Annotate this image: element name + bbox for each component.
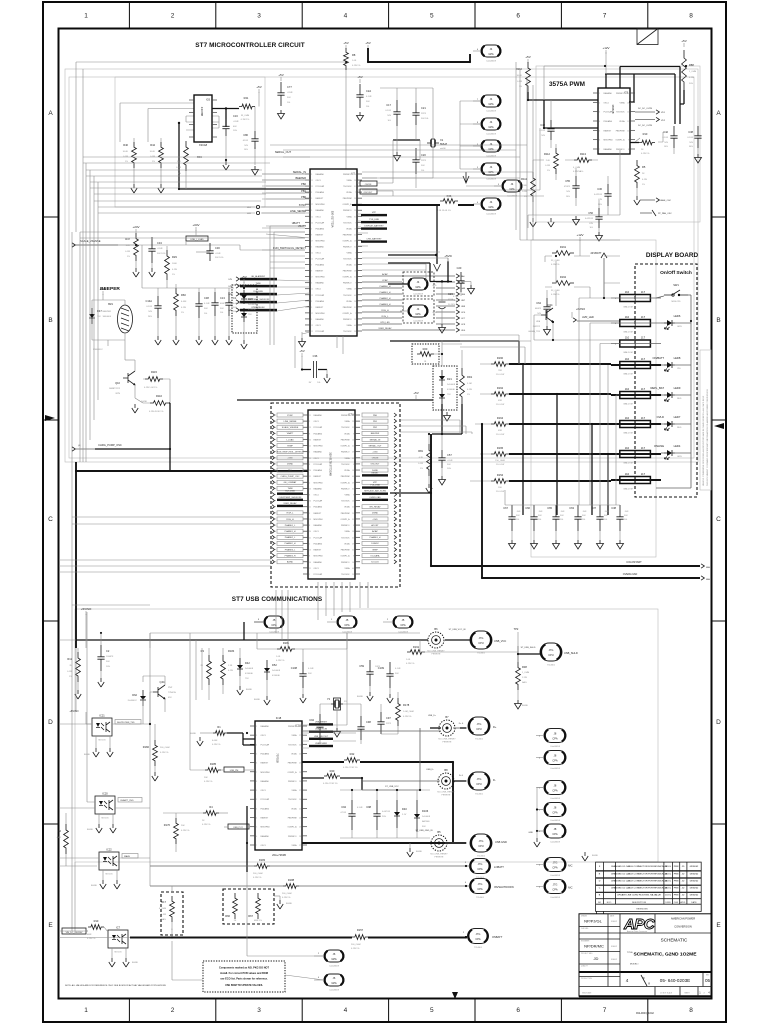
- svg-text:29: 29: [352, 421, 354, 423]
- connector oval USB GND: [470, 834, 492, 852]
- svg-text:ST_USB_VCC_IN: ST_USB_VCC_IN: [449, 629, 466, 631]
- wire U7 OSC pins to crystal: [357, 140, 420, 196]
- svg-text:CPA: CPA: [475, 937, 480, 941]
- svg-text:05- 640-0203E: 05- 640-0203E: [660, 978, 690, 983]
- svg-text:GPA: GPA: [488, 102, 494, 106]
- svg-text:LED9: LED9: [674, 386, 681, 390]
- svg-text:C67: C67: [503, 506, 508, 510]
- svg-text:OSC1: OSC1: [314, 421, 319, 423]
- svg-text:ONLINE: ONLINE: [654, 444, 664, 448]
- svg-text:0.1W: 0.1W: [172, 269, 177, 271]
- svg-text:49R: 49R: [498, 400, 502, 402]
- wire q44 area: [143, 676, 165, 740]
- svg-text:MISO/PB4: MISO/PB4: [314, 446, 323, 448]
- svg-text:LED8: LED8: [674, 356, 681, 360]
- svg-text:D52: D52: [272, 663, 277, 667]
- svg-text:VPP: VPP: [372, 212, 377, 214]
- svg-text:PB2/MCO: PB2/MCO: [343, 283, 352, 285]
- svg-text:SERIAL_IN: SERIAL_IN: [293, 170, 306, 174]
- connector oval D plus: [468, 717, 490, 735]
- svg-text:8: 8: [628, 149, 629, 151]
- svg-text:63V: 63V: [589, 223, 593, 225]
- svg-text:1.5W: 1.5W: [161, 914, 166, 916]
- svg-text:VDDA: VDDA: [344, 506, 350, 509]
- svg-text:IC6: IC6: [206, 98, 211, 102]
- svg-text:31: 31: [354, 216, 356, 218]
- svg-text:0.1W: 0.1W: [176, 167, 181, 169]
- svg-text:PB6/PWM: PB6/PWM: [341, 439, 350, 441]
- svg-text:APC: APC: [623, 916, 656, 933]
- svg-text:PHASE3_H: PHASE3_H: [380, 303, 391, 306]
- svg-text:D106: D106: [422, 809, 429, 813]
- svg-text:33_OHM: 33_OHM: [241, 115, 250, 117]
- svg-text:10: 10: [627, 130, 629, 132]
- zone column dividers: [128, 2, 130, 29]
- svg-text:BGND: BGND: [91, 885, 98, 887]
- svg-text:1.0K: 1.0K: [352, 60, 357, 62]
- svg-text:D4-0608: D4-0608: [422, 816, 431, 818]
- opto IC7: [108, 930, 128, 948]
- resistor R116: [150, 401, 169, 406]
- svg-text:JD: JD: [682, 866, 685, 868]
- diode D15 upper: [243, 290, 245, 295]
- svg-text:USB_OSCOUT: USB_OSCOUT: [314, 736, 329, 738]
- wire connector column feeds: [460, 101, 502, 186]
- connector oval LOBATT: [470, 859, 491, 874]
- svg-text:0.022UF: 0.022UF: [594, 194, 603, 196]
- svg-text:50V: 50V: [233, 307, 237, 309]
- svg-text:VSSA: VSSA: [346, 288, 352, 291]
- svg-text:J10: J10: [625, 290, 630, 294]
- svg-text:CPU: CPU: [476, 727, 482, 731]
- svg-text:VDDA: VDDA: [346, 191, 352, 194]
- svg-text:40: 40: [352, 537, 354, 539]
- svg-text:0.1W 5%: 0.1W 5%: [403, 716, 412, 718]
- ground BGND under IC21 b: [107, 748, 113, 757]
- svg-text:TDO/SCK: TDO/SCK: [341, 574, 350, 576]
- wire R176 r4 link: [163, 724, 205, 852]
- svg-text:0.022UF: 0.022UF: [233, 303, 242, 305]
- wire display row drop verticals: [579, 298, 616, 505]
- svg-text:PD4/AIN4: PD4/AIN4: [314, 506, 322, 509]
- ground under R81b: [426, 484, 432, 493]
- svg-text:C42: C42: [663, 130, 668, 134]
- svg-text:24VBATT: 24VBATT: [590, 251, 601, 255]
- svg-text:50V: 50V: [604, 515, 608, 517]
- revision table: [596, 862, 702, 911]
- svg-text:19: 19: [354, 319, 356, 321]
- U7 right black net bars: [361, 214, 387, 216]
- svg-text:1%: 1%: [69, 676, 72, 678]
- svg-text:SYNC: SYNC: [287, 415, 293, 417]
- svg-text:PHASE3_L: PHASE3_L: [285, 548, 296, 551]
- svg-text:OCMP1_A: OCMP1_A: [287, 826, 297, 829]
- svg-text:J7G: J7G: [479, 839, 484, 843]
- svg-text:CPA: CPA: [552, 736, 557, 740]
- svg-text:C34: C34: [157, 241, 162, 245]
- svg-text:TDO/SCK: TDO/SCK: [343, 186, 352, 188]
- connector J4 GPA oval 7: [481, 198, 501, 210]
- svg-text:9: 9: [311, 307, 312, 309]
- capacitor C36 under MCU: [302, 369, 327, 371]
- svg-text:PB6/PWM: PB6/PWM: [343, 198, 352, 200]
- ground under C63: [575, 540, 582, 549]
- svg-text:8: 8: [689, 13, 693, 20]
- wire thick D21 bottom bar: [432, 404, 462, 434]
- svg-text:UNLESS OTHERWISE SPECIFIED ALL: UNLESS OTHERWISE SPECIFIED ALL RESISTORS…: [702, 395, 705, 486]
- resistor R181: [277, 647, 295, 652]
- svg-text:SERIAL_OUT: SERIAL_OUT: [275, 150, 292, 154]
- resistor R157: [352, 935, 368, 940]
- connector J4 GPA oval 5: [481, 163, 501, 175]
- wire usb top rail: [150, 632, 420, 634]
- svg-text:R160: R160: [497, 356, 504, 360]
- svg-text:0.1W: 0.1W: [125, 251, 130, 253]
- wire long horizontal mid-left pair: [72, 516, 271, 518]
- svg-text:PHASE2_L: PHASE2_L: [285, 536, 296, 539]
- wire IC22 conns: [103, 858, 150, 880]
- svg-text:VSSA: VSSA: [346, 324, 352, 327]
- svg-text:6: 6: [599, 140, 600, 142]
- svg-text:REVISIONS: REVISIONS: [636, 908, 648, 910]
- section boundary box upper inner: [69, 77, 694, 458]
- svg-text:22PF: 22PF: [421, 160, 427, 162]
- svg-text:1%: 1%: [420, 468, 423, 470]
- svg-text:C36: C36: [313, 354, 318, 358]
- wire R81 top: [428, 434, 430, 444]
- svg-text:TDO/SCK: TDO/SCK: [343, 259, 352, 261]
- svg-text:PA0/AIN0: PA0/AIN0: [314, 487, 322, 490]
- svg-text:24: 24: [299, 818, 301, 820]
- resistor R71: [460, 368, 465, 404]
- connector J4 oval a: [408, 278, 428, 290]
- svg-text:RD1: RD1: [467, 375, 473, 379]
- svg-text:PB2/MCO: PB2/MCO: [343, 319, 352, 321]
- svg-text:0.022UF: 0.022UF: [585, 218, 594, 220]
- svg-text:C16: C16: [233, 114, 238, 118]
- ground under C66: [531, 540, 538, 549]
- svg-text:TDO/SCK: TDO/SCK: [341, 427, 350, 429]
- svg-text:40: 40: [354, 325, 356, 327]
- svg-text:R60: R60: [181, 293, 186, 297]
- svg-text:NO_ONE_HENRY: NO_ONE_HENRY: [430, 854, 448, 856]
- wire thick IC10 left col: [246, 806, 248, 872]
- svg-text:PB6/PWM: PB6/PWM: [341, 476, 350, 478]
- svg-text:J10: J10: [625, 387, 630, 391]
- svg-text:VSSA: VSSA: [619, 101, 625, 104]
- svg-text:0.1W: 0.1W: [689, 77, 694, 79]
- svg-text:3: 3: [256, 735, 257, 737]
- svg-text:1.0K: 1.0K: [276, 656, 281, 658]
- svg-text:GPA: GPA: [331, 957, 337, 961]
- ground pwm bottom left: [530, 218, 536, 227]
- svg-text:4: 4: [256, 744, 257, 746]
- svg-text:BGND: BGND: [286, 903, 293, 905]
- svg-text:4.7UF: 4.7UF: [453, 296, 459, 298]
- svg-text:F: F: [643, 976, 645, 980]
- svg-text:20K: 20K: [204, 777, 208, 779]
- svg-text:40: 40: [352, 507, 354, 509]
- dashed box D21 tvs: [433, 366, 457, 410]
- svg-text:4: 4: [599, 121, 600, 123]
- svg-text:8: 8: [309, 525, 310, 527]
- svg-text:OVERLOAD: OVERLOAD: [623, 572, 638, 576]
- resistor R20: [417, 352, 434, 357]
- wire R40 R44 tops: [134, 138, 186, 189]
- svg-text:50V: 50V: [447, 464, 451, 466]
- svg-text:0.1W 1%: 0.1W 1%: [241, 119, 250, 121]
- transistor Q44 pnp: [153, 685, 165, 699]
- svg-text:28: 28: [354, 180, 356, 182]
- svg-text:+24V: +24V: [132, 225, 139, 229]
- svg-text:0_OHM: 0_OHM: [573, 167, 580, 169]
- ground BGND R38: [515, 700, 522, 709]
- svg-text:10.0K: 10.0K: [150, 151, 156, 153]
- svg-text:12: 12: [311, 289, 313, 291]
- svg-text:Cab-B6D8: Cab-B6D8: [550, 820, 561, 822]
- svg-text:1.0M_OHM: 1.0M_OHM: [403, 711, 414, 713]
- svg-text:BGND: BGND: [522, 705, 529, 707]
- resistor R46: [440, 199, 458, 204]
- svg-text:13: 13: [309, 550, 311, 552]
- svg-text:D42: D42: [245, 661, 250, 665]
- svg-text:50V: 50V: [366, 101, 370, 103]
- wire B6 leads: [445, 639, 470, 641]
- IC7A left pin flags: [277, 413, 303, 417]
- wire bundle ic7a feed verticals: [276, 582, 368, 648]
- svg-text:35: 35: [352, 488, 354, 490]
- svg-text:29: 29: [352, 513, 354, 515]
- dashed box R17: [161, 892, 183, 935]
- svg-text:Cab-B6D8: Cab-B6D8: [486, 61, 497, 63]
- svg-text:20%: 20%: [148, 316, 152, 318]
- capacitor C23 polarized: [441, 282, 443, 302]
- ground under D15: [241, 340, 247, 349]
- svg-text:1%: 1%: [172, 274, 175, 276]
- svg-text:J17: J17: [641, 472, 646, 476]
- svg-text:PC1/ICAP: PC1/ICAP: [314, 536, 323, 539]
- svg-text:BEEPER: BEEPER: [371, 433, 380, 435]
- svg-text:50V: 50V: [395, 673, 399, 675]
- svg-text:5: 5: [430, 13, 434, 20]
- svg-text:20%: 20%: [382, 816, 386, 818]
- wire bundle pwm bottom: [520, 66, 620, 240]
- svg-text:0.1W 1%: 0.1W 1%: [87, 938, 96, 940]
- svg-text:PHASE1_L: PHASE1_L: [285, 524, 296, 527]
- svg-text:UPDATE LINE CORD ROUTING. NA V: UPDATE LINE CORD ROUTING. NA VALUE: [617, 894, 661, 897]
- svg-text:I_LOAD: I_LOAD: [286, 438, 294, 441]
- svg-text:50V: 50V: [106, 661, 110, 663]
- svg-text:GPA: GPA: [331, 981, 337, 985]
- svg-text:C59: C59: [359, 664, 364, 668]
- svg-text:VSSA: VSSA: [346, 215, 352, 218]
- svg-text:19: 19: [354, 228, 356, 230]
- svg-text:LED4: LED4: [674, 444, 681, 448]
- ground BGND under D42: [237, 686, 243, 695]
- svg-text:BAT54E: BAT54E: [422, 820, 430, 823]
- svg-text:30V: 30V: [422, 826, 426, 828]
- svg-text:4.5UF: 4.5UF: [357, 807, 363, 809]
- capacitor C108: [299, 662, 306, 688]
- svg-text:R4: R4: [209, 805, 213, 809]
- svg-text:1% 0.1W: 1% 0.1W: [496, 404, 504, 406]
- svg-text:16: 16: [352, 470, 354, 472]
- svg-text:9: 9: [628, 140, 629, 142]
- svg-text:28: 28: [354, 240, 356, 242]
- wire beeper top: [92, 294, 125, 346]
- svg-text:J7G: J7G: [476, 932, 481, 936]
- svg-text:VSSA: VSSA: [346, 252, 352, 255]
- capacitor C65 display: [552, 505, 559, 531]
- svg-text:40: 40: [352, 446, 354, 448]
- svg-text:09/30/02: 09/30/02: [690, 873, 699, 875]
- svg-text:9: 9: [311, 198, 312, 200]
- svg-text:6: 6: [256, 836, 257, 838]
- wire thick +5V bus to connector: [368, 48, 470, 62]
- ic IC7A ST7 USB controller: [308, 410, 355, 579]
- svg-text:MISO/PB4: MISO/PB4: [314, 519, 323, 521]
- svg-text:C20: C20: [457, 266, 462, 270]
- capacitor C64 display: [543, 298, 550, 318]
- svg-text:R178: R178: [403, 703, 410, 707]
- wire thick ladder rows: [509, 364, 611, 481]
- svg-text:PRODUCTION: PRODUCTION: [581, 978, 593, 980]
- svg-text:PA0/AIN0: PA0/AIN0: [314, 451, 322, 454]
- svg-text:28: 28: [299, 836, 301, 838]
- svg-text:J17: J17: [641, 290, 646, 294]
- svg-text:0.1W 1%: 0.1W 1%: [641, 153, 650, 155]
- svg-text:R157: R157: [357, 928, 364, 932]
- svg-text:PRN: PRN: [674, 888, 679, 890]
- svg-text:200_OHM: 200_OHM: [160, 747, 170, 749]
- svg-text:21: 21: [309, 568, 311, 570]
- svg-text:+12V: +12V: [99, 287, 106, 291]
- svg-text:C80: C80: [243, 133, 248, 137]
- svg-text:R66: R66: [225, 914, 230, 918]
- svg-text:VSSA: VSSA: [344, 494, 350, 497]
- svg-text:21: 21: [309, 415, 311, 417]
- svg-text:2: 2: [309, 452, 310, 454]
- svg-text:A: A: [716, 110, 721, 117]
- svg-text:J7G: J7G: [477, 722, 482, 726]
- wire thick CHRG_PUMP_OSC: [95, 403, 170, 471]
- svg-text:2: 2: [309, 543, 310, 545]
- svg-text:RED: RED: [677, 398, 682, 400]
- svg-text:05: 05: [705, 978, 711, 983]
- svg-text:1% 0.1W: 1% 0.1W: [496, 491, 504, 493]
- svg-text:.1UF: .1UF: [516, 511, 521, 513]
- ground under R182: [152, 772, 158, 781]
- svg-text:D+: D+: [493, 725, 497, 729]
- svg-text:60V: 60V: [233, 126, 237, 128]
- ground under C38 pwm: [695, 154, 702, 163]
- svg-text:MISO/PB4: MISO/PB4: [316, 204, 325, 206]
- svg-text:R183: R183: [259, 858, 266, 862]
- svg-text:50V: 50V: [244, 145, 248, 147]
- svg-text:5.1M: 5.1M: [467, 383, 472, 385]
- svg-text:GE_ALARMS2: GE_ALARMS2: [251, 275, 266, 278]
- svg-text:SHEET: SHEET: [684, 993, 689, 995]
- wire display feed: [545, 240, 590, 306]
- svg-text:4.7UF: 4.7UF: [340, 812, 346, 814]
- svg-text:VSSA: VSSA: [344, 567, 350, 570]
- svg-text:OSCOUT: OSCOUT: [371, 464, 381, 466]
- svg-text:PA3/EXT: PA3/EXT: [316, 306, 324, 309]
- svg-text:19: 19: [354, 289, 356, 291]
- capacitor C14A: [154, 296, 161, 318]
- svg-text:10%: 10%: [447, 468, 451, 470]
- svg-text:RCH_L: RCH_L: [382, 316, 390, 318]
- junction dots: [367, 61, 369, 63]
- svg-text:PA3/EXT: PA3/EXT: [604, 129, 612, 132]
- svg-text:9: 9: [353, 433, 354, 435]
- svg-text:50V: 50V: [421, 165, 425, 167]
- svg-text:GRN: GRN: [677, 456, 682, 458]
- svg-text:22PF: 22PF: [421, 113, 427, 115]
- svg-text:R5: R5: [642, 165, 646, 169]
- svg-text:WALDOM: WALDOM: [623, 305, 633, 308]
- svg-text:40: 40: [352, 415, 354, 417]
- notes column box: [700, 350, 711, 490]
- svg-text:0.1W: 0.1W: [522, 191, 527, 193]
- switch SW1: [664, 290, 688, 295]
- capacitor C56 pwm: [595, 208, 602, 228]
- capacitor C43: [547, 120, 554, 140]
- svg-text:0.1W 49.9K 1%: 0.1W 49.9K 1%: [149, 411, 164, 413]
- wire Q24 connections: [534, 315, 620, 340]
- svg-text:R110: R110: [516, 67, 523, 71]
- svg-text:TDO/SCK: TDO/SCK: [616, 112, 625, 114]
- resistor R160: [491, 362, 509, 367]
- wire thick R110 to IC9: [528, 92, 598, 128]
- svg-text:29: 29: [352, 482, 354, 484]
- svg-text:REPL_BAT: REPL_BAT: [650, 386, 664, 390]
- svg-text:5: 5: [311, 283, 312, 285]
- diode D42: [239, 658, 241, 665]
- svg-text:50V 10L: 50V 10L: [421, 118, 430, 120]
- resistor R183: [254, 864, 270, 869]
- svg-text:C36: C36: [597, 187, 602, 191]
- svg-text:install. For correct PCB value: install. For correct PCB values and BOM: [220, 972, 268, 975]
- svg-text:OSC1: OSC1: [316, 216, 321, 218]
- svg-text:CPU: CPU: [478, 641, 484, 645]
- svg-text:ACAP: ACAP: [372, 530, 378, 533]
- wire thick U7 right bus: [352, 204, 474, 206]
- svg-text:PB2: PB2: [301, 182, 306, 186]
- wire r3 r184 leads: [209, 648, 240, 700]
- svg-text:PB2/MCO: PB2/MCO: [341, 488, 350, 490]
- capacitor C1: [225, 292, 232, 316]
- ground under C67: [509, 540, 516, 549]
- svg-text:DC_DC_OUTB: DC_DC_OUTB: [638, 108, 653, 110]
- svg-text:5: 5: [311, 246, 312, 248]
- ground under C17: [394, 152, 401, 161]
- section boundary box usb area: [75, 609, 658, 862]
- svg-text:PRN: PRN: [674, 880, 679, 882]
- svg-text:.01UF: .01UF: [215, 253, 221, 255]
- svg-text:VBATT: VBATT: [287, 432, 294, 435]
- svg-text:NP/PJ/GL: NP/PJ/GL: [584, 919, 603, 924]
- svg-text:+5V: +5V: [413, 391, 418, 395]
- net label USB_PC2: [228, 824, 249, 829]
- svg-text:CPA: CPA: [552, 758, 557, 762]
- ground under C99: [367, 692, 373, 701]
- svg-text:8: 8: [309, 433, 310, 435]
- svg-text:JD: JD: [682, 873, 685, 875]
- svg-text:1.0K: 1.0K: [406, 659, 411, 661]
- svg-text:B5: B5: [437, 830, 441, 834]
- svg-text:.1UF: .1UF: [582, 511, 587, 513]
